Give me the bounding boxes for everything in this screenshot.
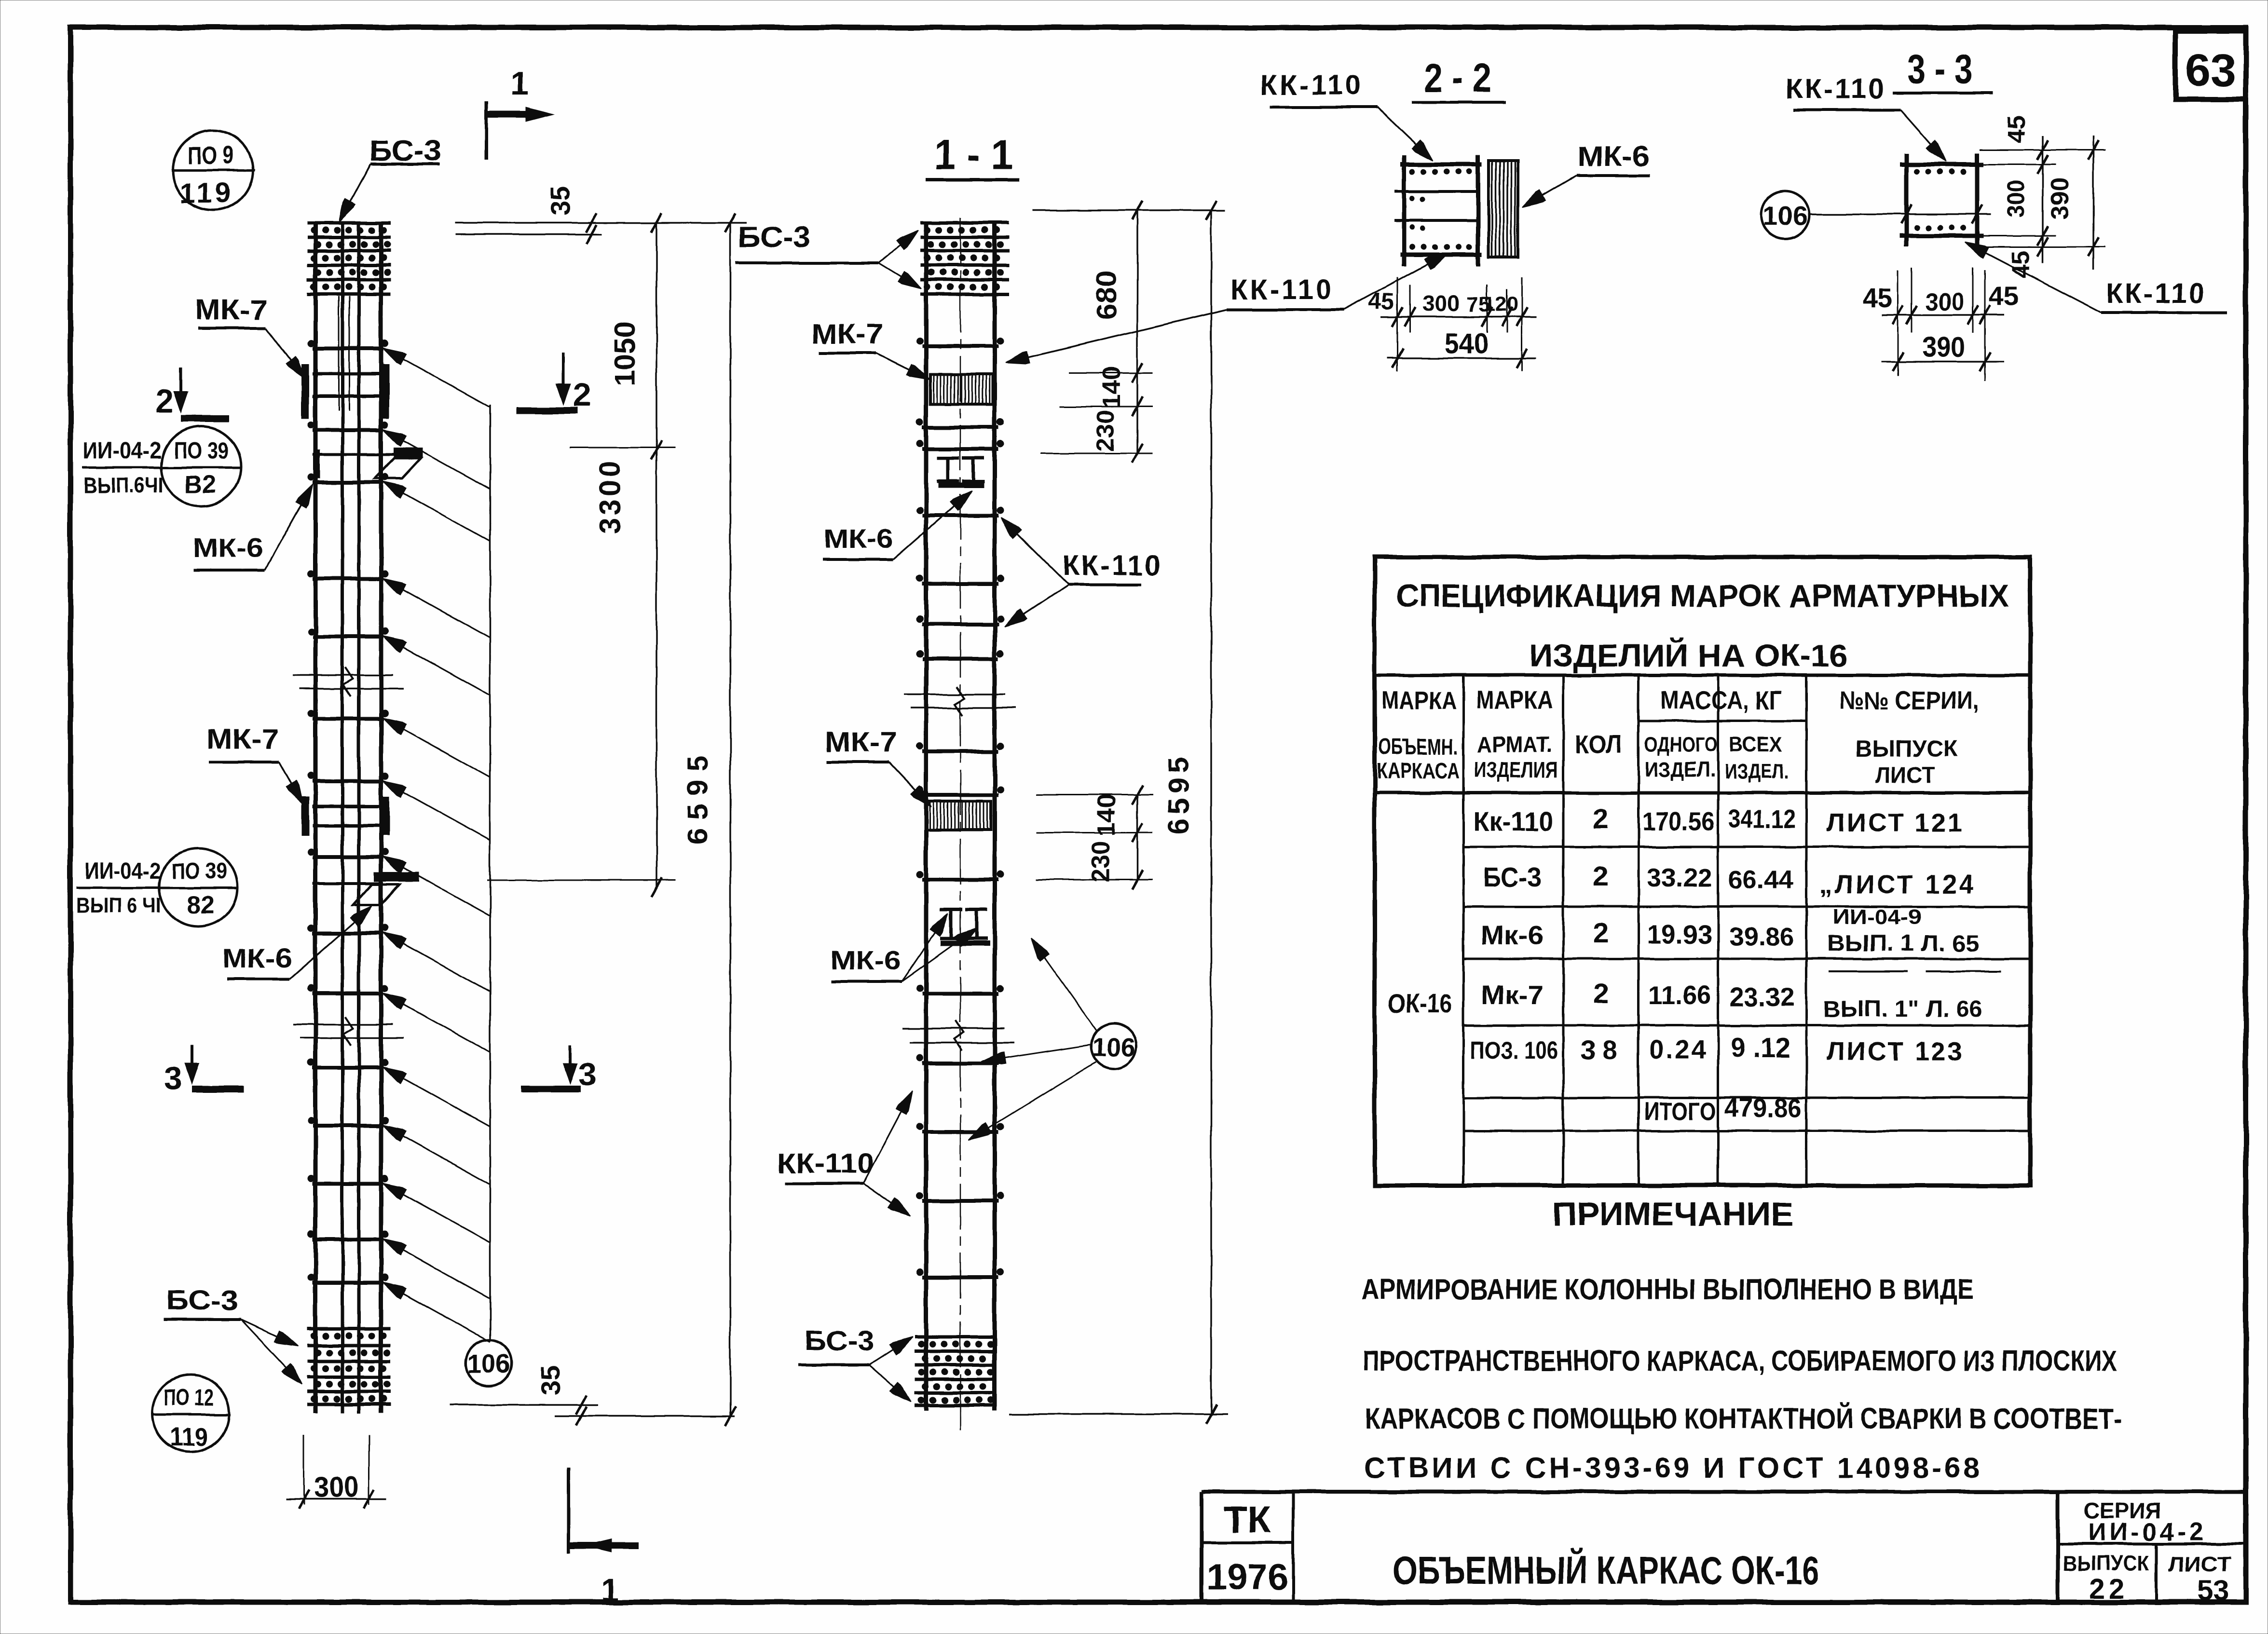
- svg-text:МК-7: МК-7: [811, 318, 884, 350]
- svg-text:БС-3: БС-3: [805, 1325, 874, 1357]
- svg-text:2: 2: [1593, 917, 1609, 949]
- middle column Mk-6 fixture lower: [950, 909, 953, 940]
- svg-text:53: 53: [2198, 1575, 2229, 1607]
- svg-text:39.86: 39.86: [1729, 922, 1794, 951]
- middle column bottom mesh BS-3: [915, 1335, 995, 1339]
- section mark 1 bottom: [567, 1467, 571, 1553]
- section 2-2 cage Kk-110 box: [1402, 155, 1407, 266]
- svg-text:КОЛ: КОЛ: [1574, 730, 1623, 759]
- svg-text:В2: В2: [184, 471, 216, 499]
- left column Mk-6 bent plate lower: [374, 872, 419, 882]
- left column longitudinal bar 1: [314, 222, 318, 1413]
- svg-text:ПО 39: ПО 39: [174, 438, 229, 463]
- svg-text:2: 2: [1593, 860, 1609, 892]
- left column longitudinal bar 4: [379, 222, 383, 1413]
- section mark 1 top: [485, 101, 488, 160]
- svg-text:540: 540: [1445, 327, 1488, 360]
- svg-text:КАРКАСА: КАРКАСА: [1377, 758, 1460, 783]
- position 106 leader fan collector line: [489, 405, 491, 1340]
- svg-text:230: 230: [1087, 841, 1115, 883]
- left column Mk-6 bent plate upper: [394, 448, 423, 457]
- section 3-3 bottom dimensions 45/300/45 and 390: [1898, 270, 1899, 376]
- callout circle po9/119 top left: [173, 130, 253, 210]
- svg-text:АРМИРОВАНИЕ КОЛОННЫ ВЫПОЛНЕН: АРМИРОВАНИЕ КОЛОННЫ ВЫПОЛНЕНО В ВИДЕ: [1361, 1273, 1974, 1306]
- svg-text:ВЫП 6 ЧI: ВЫП 6 ЧI: [77, 894, 161, 917]
- svg-text:300: 300: [1422, 290, 1460, 316]
- svg-text:479.86: 479.86: [1724, 1092, 1802, 1123]
- svg-text:ИИ-04-2: ИИ-04-2: [2088, 1518, 2206, 1546]
- svg-text:106: 106: [1092, 1033, 1135, 1062]
- svg-text:ИИ-04-2: ИИ-04-2: [83, 438, 162, 463]
- svg-text:45: 45: [2003, 115, 2031, 143]
- svg-text:№№ СЕРИИ,: №№ СЕРИИ,: [1839, 687, 1979, 715]
- svg-text:ПРИМЕЧАНИЕ: ПРИМЕЧАНИЕ: [1552, 1196, 1793, 1232]
- svg-text:6595: 6595: [682, 747, 714, 844]
- svg-text:1050: 1050: [609, 321, 641, 385]
- svg-text:КК-110: КК-110: [1260, 69, 1364, 101]
- svg-text:МК-6: МК-6: [193, 532, 263, 563]
- svg-text:КК-110: КК-110: [778, 1148, 874, 1179]
- svg-text:ВСЕХ: ВСЕХ: [1729, 733, 1782, 756]
- svg-text:2 - 2: 2 - 2: [1424, 55, 1491, 100]
- svg-text:ОБЪЕМН.: ОБЪЕМН.: [1378, 734, 1458, 759]
- svg-text:106: 106: [1762, 201, 1807, 231]
- middle column Mk-7 plate hatched upper: [930, 374, 993, 404]
- svg-text:ОДНОГО: ОДНОГО: [1644, 733, 1718, 756]
- svg-text:390: 390: [1923, 332, 1965, 363]
- left column tie rungs with position-106 clip dots: [313, 347, 383, 351]
- svg-text:33.22: 33.22: [1647, 863, 1712, 892]
- section 3-3 right dimensions 45/300/390/45: [1980, 150, 2105, 151]
- svg-text:3300: 3300: [594, 458, 626, 533]
- svg-text:66.44: 66.44: [1728, 865, 1793, 894]
- position 106 bubble left view: [465, 1340, 512, 1386]
- dimension 35 top (extension lines): [455, 222, 747, 224]
- svg-text:ИИ-04-9: ИИ-04-9: [1833, 905, 1922, 929]
- left column Mk-7 end plates upper: [301, 364, 309, 419]
- svg-text:11.66: 11.66: [1648, 981, 1711, 1010]
- svg-text:1976: 1976: [1206, 1557, 1288, 1598]
- position 106 bubble at 3-3: [1761, 191, 1809, 239]
- svg-text:45: 45: [2007, 250, 2035, 278]
- section 3-3 bar dots: [1914, 169, 1920, 175]
- callout circle po12/119 bottom left: [152, 1375, 229, 1452]
- middle column centerline axis: [960, 218, 961, 1430]
- svg-text:ЛИСТ: ЛИСТ: [1875, 763, 1935, 789]
- middle column Mk-6 fixture upper (I sections on plate): [947, 457, 950, 482]
- svg-text:МАРКА: МАРКА: [1381, 687, 1457, 715]
- section 2-2 Mk-6 hatched plate: [1489, 161, 1518, 257]
- svg-text:ПО 39: ПО 39: [172, 858, 227, 884]
- svg-text:„ЛИСТ 124: „ЛИСТ 124: [1819, 870, 1976, 899]
- callout II-04-2 vyp6ch1 / po39 82 circle: [159, 848, 237, 926]
- svg-text:23.32: 23.32: [1730, 983, 1795, 1012]
- dimension 35 bottom: [450, 1404, 598, 1406]
- svg-text:341.12: 341.12: [1728, 804, 1796, 833]
- title block frame: [1202, 1490, 2246, 1494]
- dimension line 6595 left chain: [729, 223, 731, 1416]
- svg-text:ИЗДЕЛ.: ИЗДЕЛ.: [1725, 760, 1789, 783]
- svg-text:МК-7: МК-7: [206, 723, 279, 755]
- svg-text:БС-3: БС-3: [166, 1285, 239, 1316]
- svg-text:КК-110: КК-110: [1062, 550, 1162, 581]
- middle column tie rungs: [922, 344, 998, 348]
- dimension line 1050/3300 chain: [656, 223, 657, 887]
- svg-text:АРМАТ.: АРМАТ.: [1477, 732, 1552, 757]
- svg-text:19.93: 19.93: [1647, 920, 1712, 949]
- svg-text:ИЗДЕЛ.: ИЗДЕЛ.: [1645, 758, 1716, 781]
- svg-text:300: 300: [1926, 288, 1964, 316]
- svg-text:ИТОГО: ИТОГО: [1644, 1098, 1716, 1126]
- svg-text:МК-6: МК-6: [831, 945, 901, 975]
- section 3-3 cage box: [1904, 153, 1909, 247]
- svg-text:ВЫП. 1 Л. 65: ВЫП. 1 Л. 65: [1827, 931, 1980, 956]
- middle column splice break lower: [903, 1027, 1004, 1029]
- svg-text:ВЫПУСК: ВЫПУСК: [1855, 736, 1958, 762]
- svg-text:МК-6: МК-6: [1577, 141, 1650, 172]
- svg-text:119: 119: [179, 177, 233, 209]
- middle column top mesh BS-3: [920, 221, 1009, 225]
- left column top mesh BS-3: [307, 221, 391, 225]
- callout II-04-2 vyp.6ch1 / po39 V2 circle: [161, 426, 241, 506]
- svg-text:Кк-110: Кк-110: [1474, 806, 1553, 836]
- left column Mk-7 end plates lower: [301, 797, 309, 835]
- svg-text:106: 106: [467, 1349, 510, 1378]
- svg-text:45: 45: [1989, 281, 2019, 311]
- svg-text:3: 3: [164, 1060, 182, 1096]
- dimension 300 bottom of left column: [303, 1435, 305, 1505]
- svg-text:63: 63: [2185, 45, 2236, 96]
- svg-text:СТВИИ С СН-393-69 И ГОСТ: СТВИИ С СН-393-69 И ГОСТ 14098-68: [1365, 1452, 1982, 1484]
- svg-text:45: 45: [1862, 283, 1892, 313]
- svg-text:БС-3: БС-3: [1483, 862, 1541, 892]
- svg-text:22: 22: [2090, 1573, 2129, 1605]
- svg-text:230: 230: [1092, 410, 1120, 452]
- svg-text:120: 120: [1484, 293, 1518, 315]
- svg-text:ОК-16: ОК-16: [1388, 988, 1452, 1019]
- svg-text:ПО 9: ПО 9: [188, 142, 234, 170]
- left column splice break upper: [293, 674, 393, 676]
- svg-text:2: 2: [155, 383, 174, 420]
- svg-text:БС-3: БС-3: [738, 221, 810, 253]
- position 106 tie line through 3-3: [1810, 213, 1991, 215]
- svg-text:ВЫП.6ЧI: ВЫП.6ЧI: [84, 473, 164, 498]
- svg-text:СПЕЦИФИКАЦИЯ МАРОК АРМАТУРНЫХ: СПЕЦИФИКАЦИЯ МАРОК АРМАТУРНЫХ: [1396, 578, 2009, 613]
- svg-text:82: 82: [186, 891, 214, 919]
- middle column Mk-7 plate hatched lower: [927, 801, 991, 830]
- svg-text:35: 35: [535, 1365, 565, 1395]
- svg-text:1: 1: [510, 65, 529, 102]
- svg-text:МК-6: МК-6: [222, 943, 292, 973]
- svg-text:ЛИСТ: ЛИСТ: [2168, 1552, 2231, 1576]
- dimension chain 140/230 lower: [1136, 795, 1138, 880]
- section 2-2 bar dots: [1410, 169, 1415, 175]
- svg-text:38: 38: [1581, 1035, 1624, 1065]
- dimension line 6595 middle chain: [1210, 210, 1212, 1414]
- svg-text:МК-6: МК-6: [824, 523, 894, 554]
- svg-text:ИИ-04-2: ИИ-04-2: [85, 858, 161, 884]
- position 106 bubble middle view: [1091, 1023, 1136, 1069]
- middle column splice break upper: [904, 694, 1005, 695]
- sheet number box 63: [2175, 31, 2246, 99]
- middle column longitudinal bar right: [993, 221, 997, 1411]
- svg-text:БС-3: БС-3: [369, 135, 441, 167]
- svg-text:2: 2: [1593, 803, 1609, 835]
- svg-text:ЛИСТ 121: ЛИСТ 121: [1827, 808, 1964, 837]
- svg-text:ВЫПУСК: ВЫПУСК: [2063, 1552, 2149, 1575]
- svg-text:390: 390: [2046, 177, 2074, 220]
- svg-text:9 .12: 9 .12: [1731, 1032, 1790, 1063]
- left column longitudinal bar 3: [357, 222, 361, 1413]
- svg-text:ПРОСТРАНСТВЕННОГО КАРКАСА, СО: ПРОСТРАНСТВЕННОГО КАРКАСА, СОБИРАЕМОГО И…: [1363, 1345, 2118, 1377]
- svg-text:300: 300: [314, 1471, 358, 1503]
- svg-text:ПОЗ. 106: ПОЗ. 106: [1470, 1037, 1558, 1065]
- svg-text:Мк-6: Мк-6: [1481, 920, 1544, 950]
- left column splice break lower: [293, 1023, 393, 1025]
- svg-text:ОБЪЕМНЫЙ КАРКАС ОК-16: ОБЪЕМНЫЙ КАРКАС ОК-16: [1393, 1548, 1819, 1593]
- svg-text:КАРКАСОВ С ПОМОЩЬЮ КОНТАКТНО: КАРКАСОВ С ПОМОЩЬЮ КОНТАКТНОЙ СВАРКИ В С…: [1365, 1403, 2122, 1435]
- section 2-2 dimensions 45/300/75/120 and 540: [1397, 277, 1398, 371]
- svg-text:КК-110: КК-110: [1786, 73, 1886, 105]
- svg-text:680: 680: [1091, 271, 1122, 320]
- left column longitudinal bar 2: [341, 222, 344, 1413]
- svg-text:45: 45: [1368, 289, 1394, 314]
- middle column longitudinal bar left: [924, 221, 929, 1411]
- svg-text:3: 3: [578, 1056, 597, 1092]
- left column dowel lines: [338, 296, 340, 411]
- svg-text:МК-7: МК-7: [195, 294, 267, 326]
- svg-text:140: 140: [1093, 794, 1121, 836]
- svg-text:ЛИСТ 123: ЛИСТ 123: [1827, 1037, 1964, 1066]
- svg-text:35: 35: [545, 186, 575, 216]
- svg-text:300: 300: [2002, 180, 2029, 217]
- left column bottom mesh BS-3: [307, 1327, 391, 1331]
- svg-text:Мк-7: Мк-7: [1481, 980, 1544, 1010]
- svg-text:ТК: ТК: [1224, 1498, 1271, 1541]
- svg-text:МАССА, КГ: МАССА, КГ: [1660, 686, 1782, 715]
- svg-text:6595: 6595: [1162, 753, 1195, 834]
- svg-text:КК-110: КК-110: [1230, 274, 1334, 305]
- svg-text:ВЫП. 1" Л. 66: ВЫП. 1" Л. 66: [1823, 996, 1982, 1022]
- svg-text:КК-110: КК-110: [2106, 278, 2206, 309]
- svg-text:ИЗДЕЛИЙ НА ОК-16: ИЗДЕЛИЙ НА ОК-16: [1529, 637, 1847, 673]
- svg-text:170.56: 170.56: [1642, 807, 1715, 836]
- dimension chain 680/140/230 upper: [1033, 209, 1225, 211]
- svg-text:119: 119: [170, 1423, 208, 1452]
- svg-text:3 - 3: 3 - 3: [1908, 46, 1973, 92]
- svg-text:1 - 1: 1 - 1: [934, 132, 1013, 178]
- svg-text:ПО 12: ПО 12: [164, 1385, 214, 1411]
- svg-text:ИЗДЕЛИЯ: ИЗДЕЛИЯ: [1474, 757, 1558, 782]
- svg-text:0.24: 0.24: [1649, 1035, 1708, 1064]
- position 106 leader fan: [386, 350, 490, 408]
- specification table frame: [1375, 557, 2030, 1185]
- svg-text:МК-7: МК-7: [825, 726, 897, 758]
- section 2-2 middle ties: [1394, 190, 1480, 193]
- svg-text:140: 140: [1098, 367, 1126, 408]
- svg-text:2: 2: [1593, 978, 1609, 1009]
- svg-text:МАРКА: МАРКА: [1476, 686, 1553, 714]
- svg-text:1: 1: [601, 1572, 619, 1608]
